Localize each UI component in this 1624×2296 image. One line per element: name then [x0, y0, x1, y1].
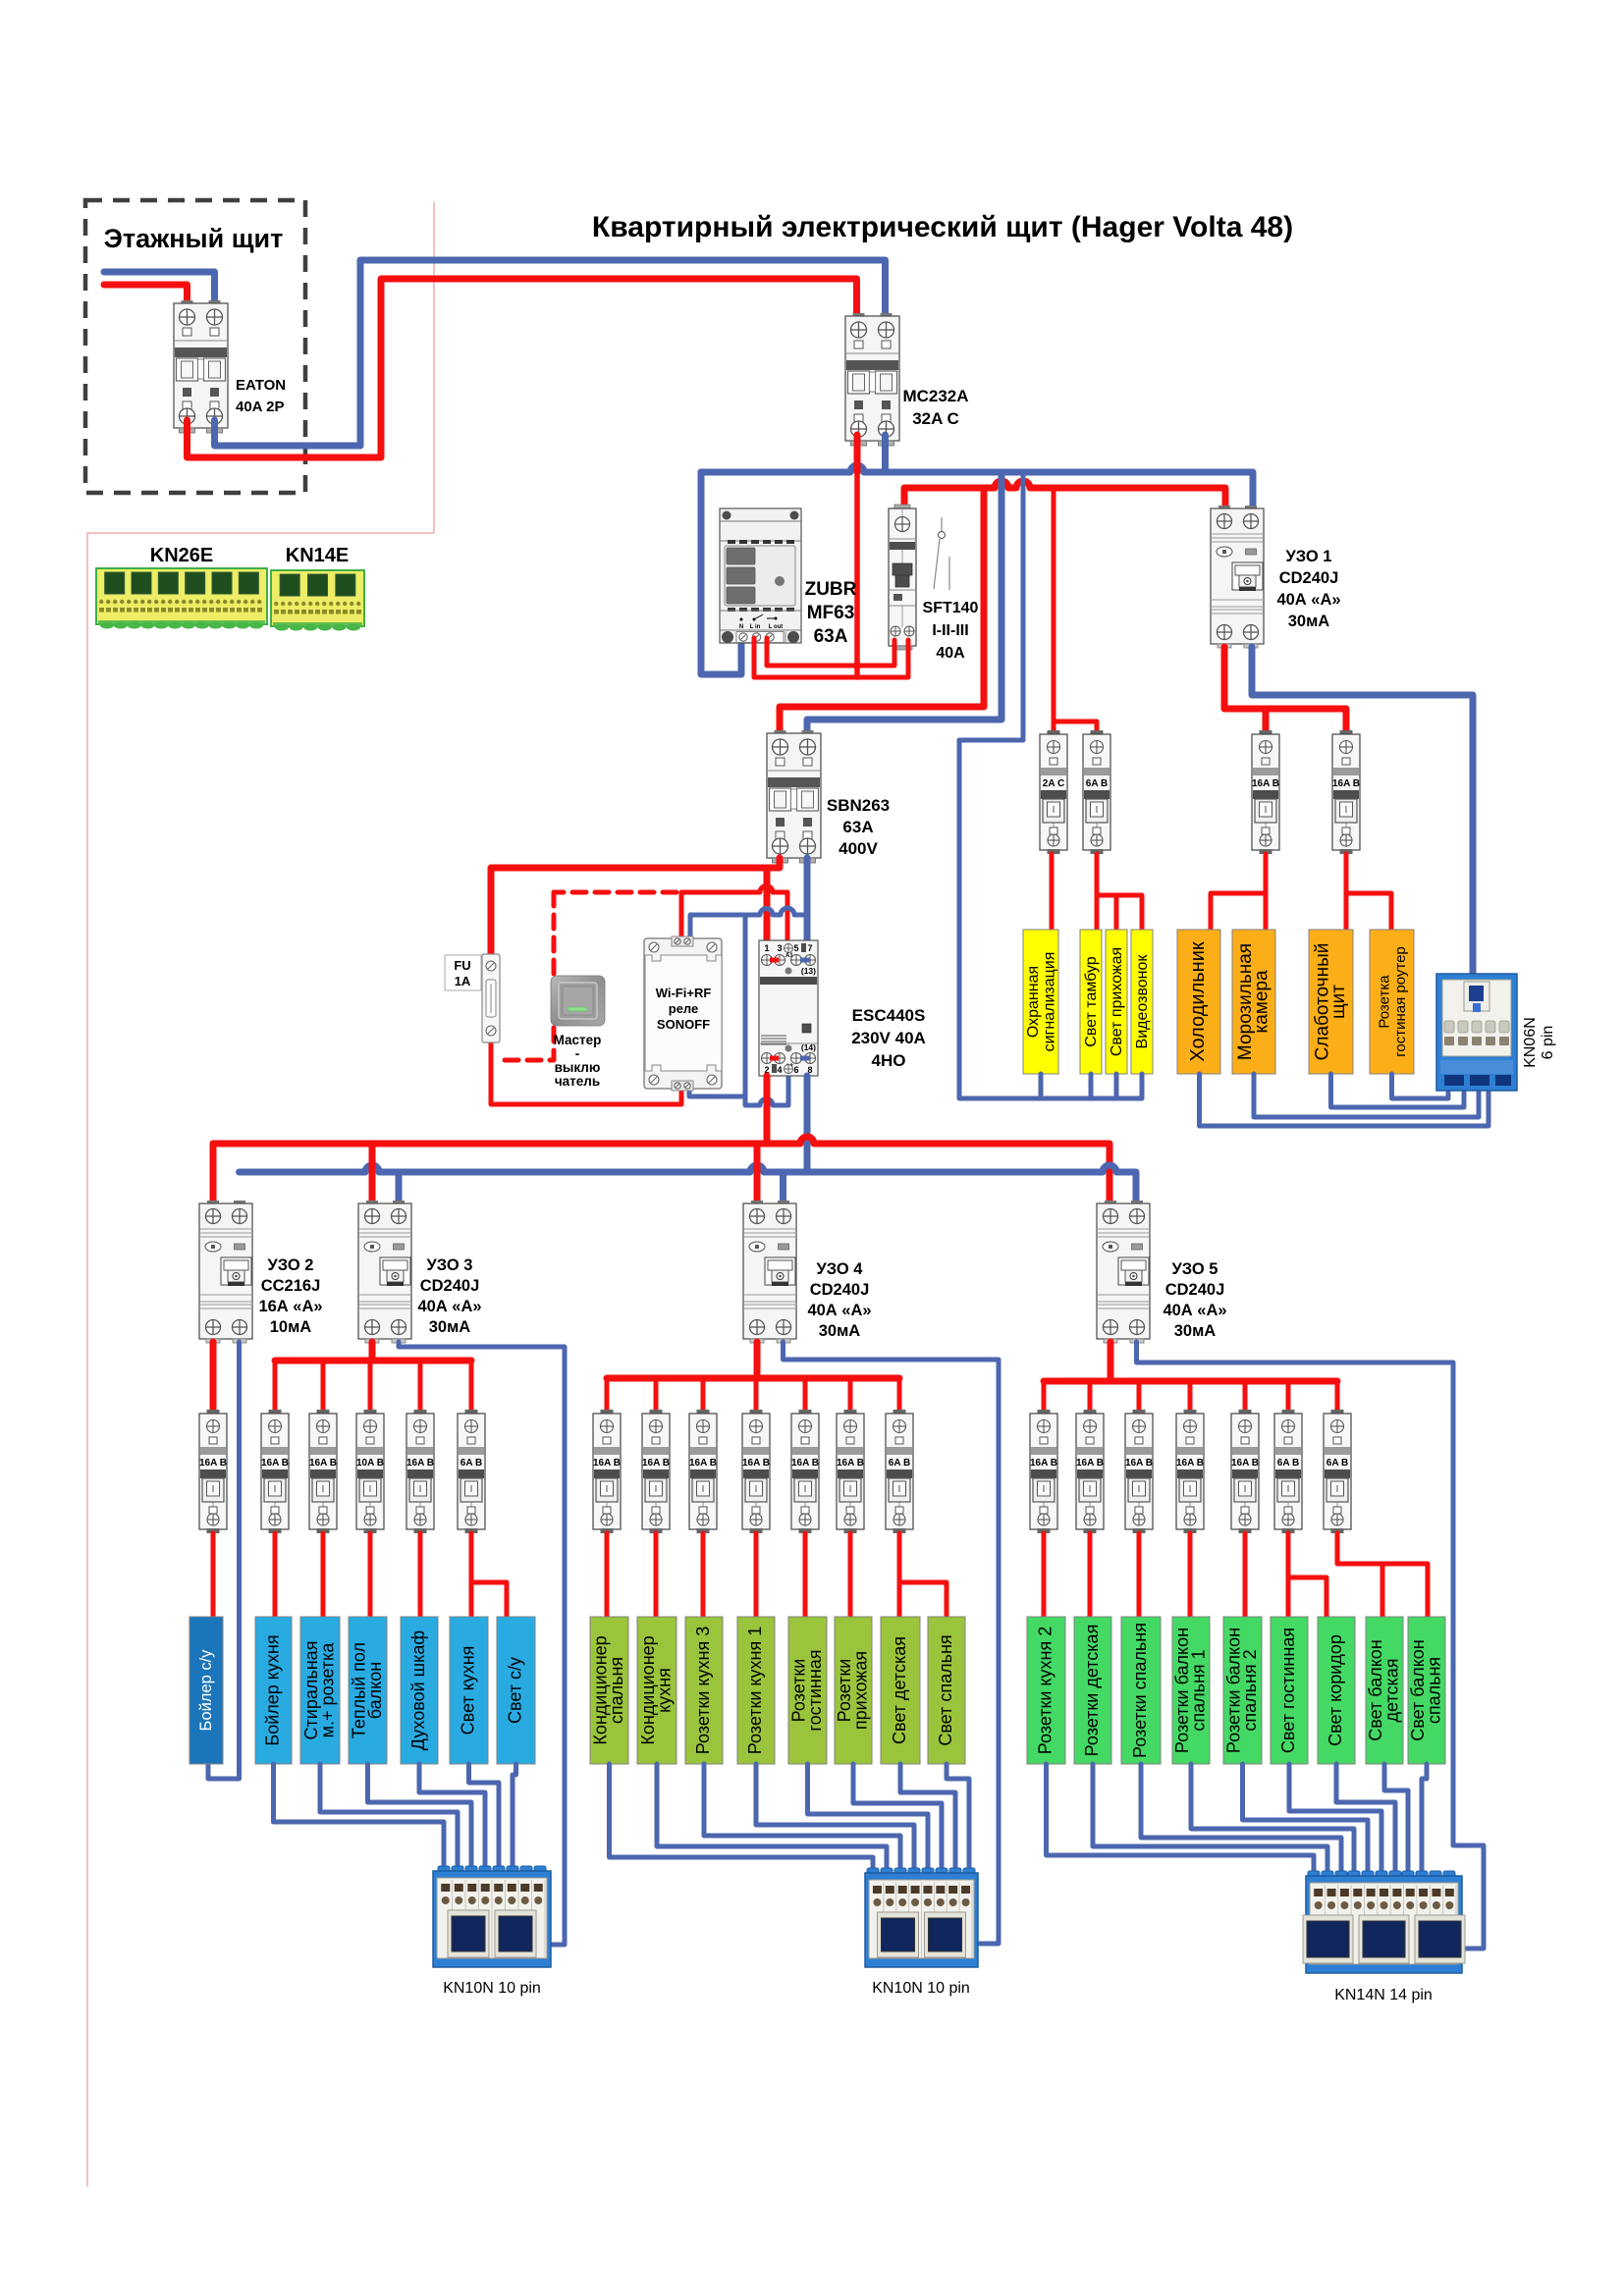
wire load group3 1 [1042, 1533, 1047, 1617]
svg-text:Духовой шкаф: Духовой шкаф [408, 1630, 428, 1751]
wire N group3 bar 2 [1093, 1764, 1327, 1871]
load bar sockets kitchen3 [685, 1617, 723, 1764]
label SFT140 [923, 600, 979, 662]
wire N group3 bar 5 [1243, 1764, 1369, 1871]
breaker group3 16A B [1231, 1410, 1259, 1533]
wire drop group2 breaker 7 [897, 1378, 902, 1410]
svg-text:Розетки кухня 2: Розетки кухня 2 [1036, 1627, 1056, 1754]
wire N group3 bar 1 [1047, 1764, 1315, 1871]
svg-text:гостиная роутер: гостиная роутер [1392, 946, 1409, 1057]
wire N drop UZO3 [396, 1172, 403, 1201]
breaker group2 16A B [689, 1410, 717, 1533]
svg-text:16A B: 16A B [1076, 1458, 1104, 1468]
RCD UZO1 CD240J [1211, 506, 1264, 648]
breaker 16A boiler wc [199, 1410, 227, 1533]
label master switch [554, 1033, 602, 1089]
switch SFT140 [889, 505, 916, 650]
breaker group2 16A B [742, 1410, 770, 1533]
load bar router socket [1370, 930, 1414, 1074]
wire N UZO5 to KN14N [1137, 1342, 1485, 1949]
load bar svet kuhnya [450, 1617, 488, 1764]
svg-text:1: 1 [764, 943, 769, 953]
switch SBN263 63A [767, 730, 821, 863]
wire L drop UZO3 [369, 1144, 376, 1201]
wire L UZO4 down [754, 1342, 761, 1378]
wire branch svet wc [471, 1582, 507, 1617]
wire N bus horizontal [701, 465, 1253, 510]
label MC232A [902, 387, 968, 428]
wire load group2 1 [605, 1533, 610, 1617]
wire drop group2 breaker 2 [654, 1378, 659, 1410]
label UZO3 [417, 1256, 481, 1336]
svg-text:10A B: 10A B [356, 1458, 384, 1468]
wire sonoff N top [690, 908, 807, 940]
svg-text:30мА: 30мА [1288, 613, 1330, 630]
wire drop group3 breaker 7 [1335, 1381, 1340, 1410]
svg-text:L in: L in [750, 624, 761, 630]
svg-text:16A B: 16A B [791, 1458, 819, 1468]
wire N group1 bar 4 [419, 1764, 485, 1866]
svg-text:щит: щит [1328, 985, 1349, 1019]
wire N group2 bar 3 [704, 1764, 900, 1868]
wire load group2 6 [848, 1533, 853, 1617]
svg-text:3: 3 [777, 943, 782, 953]
wire L EATON to MC232A [188, 279, 857, 457]
wire N branch down [745, 915, 788, 1105]
svg-text:30мА: 30мА [429, 1318, 471, 1336]
label UZO5 [1163, 1260, 1226, 1340]
wire N riser tambur [1089, 1074, 1094, 1098]
wire load group1 2 [321, 1533, 326, 1617]
wire drop group3 breaker 5 [1243, 1381, 1248, 1410]
wire N bus upper [882, 435, 889, 472]
wire drop group1 breaker 3 [368, 1361, 373, 1410]
svg-text:выклю: выклю [555, 1060, 601, 1075]
wire L UZO1 out [1224, 647, 1346, 730]
wire L drop UZO4 [754, 1144, 761, 1201]
svg-text:гостинная: гостинная [805, 1649, 825, 1731]
breaker group2 16A B [642, 1410, 670, 1533]
floor panel box [85, 200, 305, 493]
wire N supply in [104, 272, 215, 310]
svg-text:сигнализация: сигнализация [1041, 952, 1057, 1052]
svg-text:Мастер: Мастер [554, 1033, 602, 1047]
RCD UZO5 CD240J [1097, 1201, 1150, 1343]
label UZO2 [258, 1256, 322, 1336]
load bar warm floor [349, 1617, 387, 1764]
wire fridge loads [1211, 854, 1266, 930]
breaker group1 10A B [356, 1410, 384, 1533]
fuse holder FU 1A [482, 954, 500, 1042]
load bar boiler kitchen [255, 1617, 292, 1764]
RCD UZO4 CD240J [743, 1201, 796, 1343]
wire L branch to contactor pin1 [764, 868, 771, 940]
svg-text:прихожая: прихожая [850, 1651, 870, 1730]
wire load group3 3 [1137, 1533, 1142, 1617]
wire L MC232A down [854, 435, 861, 472]
svg-text:40А «А»: 40А «А» [1163, 1302, 1226, 1319]
svg-text:УЗО 3: УЗО 3 [427, 1256, 473, 1274]
load bar sockets hall [835, 1617, 872, 1764]
terminal block KN26E [96, 568, 267, 629]
svg-text:(14): (14) [801, 1042, 816, 1052]
wire L group1 rail [275, 1358, 471, 1364]
wire drop group3 breaker 2 [1088, 1381, 1093, 1410]
svg-text:CD240J: CD240J [420, 1277, 480, 1295]
svg-text:5: 5 [793, 943, 798, 953]
wire L contactor to bus [764, 1076, 771, 1144]
svg-text:KN06N: KN06N [1522, 1017, 1539, 1068]
wire drop group1 breaker 4 [418, 1361, 423, 1410]
wire drop group3 breaker 6 [1286, 1381, 1291, 1410]
construction line [87, 202, 434, 2186]
svg-text:6: 6 [793, 1065, 798, 1075]
floor panel label [104, 224, 284, 253]
svg-text:16A B: 16A B [689, 1458, 717, 1468]
wire drop group3 breaker 3 [1137, 1381, 1142, 1410]
svg-text:УЗО 4: УЗО 4 [817, 1260, 864, 1278]
svg-text:KN26E: KN26E [150, 545, 213, 566]
svg-text:40A: 40A [936, 645, 965, 662]
load bar boiler wc [189, 1617, 223, 1764]
svg-text:6A B: 6A B [1277, 1458, 1299, 1468]
breaker group1 16A B [406, 1410, 434, 1533]
wire fuse bottom to sonoff [491, 1041, 681, 1104]
wire L drop UZO2 [210, 1144, 217, 1201]
svg-text:16A B: 16A B [261, 1458, 289, 1468]
wire L branch to 6A breaker [1054, 721, 1097, 730]
wire branch svet spalnya [899, 1582, 947, 1617]
load bar svet koridor [1318, 1617, 1355, 1764]
wire drop group3 breaker 4 [1188, 1381, 1193, 1410]
load bar sockets spalnya [1121, 1617, 1161, 1764]
svg-text:40А «А»: 40А «А» [417, 1298, 481, 1315]
svg-text:Свет спальня: Свет спальня [936, 1634, 955, 1745]
label FU 1A [445, 955, 481, 990]
breaker MC232A 32A C [845, 313, 899, 446]
wire lowcurrent loads [1346, 854, 1391, 930]
svg-text:УЗО 2: УЗО 2 [268, 1256, 314, 1274]
wire N group3 bar 3 [1141, 1764, 1341, 1871]
load bar freezer [1232, 930, 1275, 1074]
svg-text:16A B: 16A B [1176, 1458, 1204, 1468]
label SBN263 [827, 796, 890, 858]
wire N group3 bar 4 [1191, 1764, 1354, 1871]
wire N UZO4 to KN10N [784, 1342, 1000, 1944]
svg-text:Свет тамбур: Свет тамбур [1083, 956, 1100, 1047]
wire N UZO3 to KN10N [399, 1342, 565, 1945]
svg-text:30мА: 30мА [819, 1322, 861, 1340]
svg-text:чатель: чатель [555, 1074, 600, 1089]
svg-text:16A B: 16A B [309, 1458, 337, 1468]
svg-text:16A B: 16A B [1252, 778, 1279, 789]
wire N riser alarm [1039, 1074, 1044, 1098]
terminal block KN14E [271, 570, 364, 631]
wire N group3 bar 8 [1384, 1764, 1408, 1871]
wire L MC232A tail [854, 472, 860, 677]
contactor ESC440S [759, 940, 818, 1076]
breaker 6A B alarm lights [1083, 730, 1110, 854]
svg-text:FU: FU [454, 958, 470, 973]
wire drop group2 breaker 3 [701, 1378, 706, 1410]
wire load group2 3 [701, 1533, 706, 1617]
svg-text:CD240J: CD240J [1165, 1281, 1225, 1299]
breaker group2 16A B [791, 1410, 819, 1533]
wire N svet wc [513, 1764, 516, 1866]
svg-text:7: 7 [807, 943, 812, 953]
svg-text:400V: 400V [839, 839, 878, 858]
label KN10N a [443, 1980, 541, 1997]
wire N UZO1 to KN06N [1252, 647, 1473, 977]
load bar sockets kitchen1 [737, 1617, 775, 1764]
wire ZUBR Lin to SFT140 [754, 638, 908, 677]
breaker 16A lowcurrent [1332, 730, 1360, 854]
svg-text:спальня: спальня [1424, 1657, 1443, 1724]
label ZUBR [805, 579, 857, 647]
breaker group3 6A B [1274, 1410, 1302, 1533]
label UZO1 [1276, 548, 1340, 630]
wire drop svet prihozhaya [1114, 895, 1119, 930]
load bar svet wc [497, 1617, 535, 1764]
wire N group3 bar 6 [1289, 1764, 1381, 1871]
svg-text:CD240J: CD240J [1279, 569, 1339, 587]
svg-text:спальня: спальня [607, 1657, 626, 1724]
svg-text:Розетки кухня 1: Розетки кухня 1 [745, 1627, 765, 1754]
label EATON [236, 377, 286, 415]
wire master dashed vertical [496, 892, 554, 1060]
wire L to SBN263 [780, 488, 984, 730]
wire load group3 4 [1188, 1533, 1193, 1617]
wire sonoff L to A1 [681, 886, 787, 940]
svg-text:KN10N 10 pin: KN10N 10 pin [872, 1980, 970, 1997]
wire master dashed horizontal [554, 890, 677, 895]
RCD UZO3 CD240J [358, 1201, 411, 1343]
svg-text:2A C: 2A C [1043, 778, 1064, 789]
svg-text:16A B: 16A B [742, 1458, 770, 1468]
wire N group3 bar 7 [1336, 1764, 1395, 1871]
breaker group3 16A B [1030, 1410, 1057, 1533]
svg-text:L out: L out [769, 624, 784, 630]
master switch icon [551, 976, 605, 1026]
wire N fridge [1200, 1074, 1489, 1126]
svg-text:40A 2P: 40A 2P [236, 399, 284, 415]
svg-text:6A B: 6A B [889, 1458, 910, 1468]
svg-text:6A B: 6A B [460, 1458, 482, 1468]
label ESC440S [851, 1006, 926, 1070]
wire N distribution bus [240, 1165, 1137, 1201]
wire L group3 rail [1044, 1378, 1337, 1385]
wire load group2 4 [754, 1533, 759, 1617]
wire N SBN263 to contactor pin7 [804, 858, 811, 940]
svg-text:EATON: EATON [236, 377, 286, 394]
wire N group1 bar 3 [368, 1764, 472, 1866]
load bar lowcurrent panel [1309, 930, 1353, 1074]
wire N freezer [1254, 1074, 1479, 1117]
breaker group3 16A B [1076, 1410, 1104, 1533]
svg-text:ESC440S: ESC440S [852, 1006, 926, 1025]
svg-text:63A: 63A [842, 818, 873, 836]
svg-text:ZUBR: ZUBR [805, 579, 857, 600]
wire L UZO5 down [1108, 1342, 1114, 1381]
wire drop group1 breaker 2 [321, 1361, 326, 1410]
svg-text:Свет коридор: Свет коридор [1326, 1634, 1345, 1746]
svg-text:16A B: 16A B [1332, 778, 1360, 789]
svg-text:40А «А»: 40А «А» [807, 1302, 871, 1319]
breaker group1 16A B [261, 1410, 289, 1533]
wire sonoff N bottom loop [689, 1090, 745, 1096]
wire L to 2A breaker [1052, 488, 1056, 730]
svg-text:балкон: балкон [365, 1662, 385, 1719]
wire load group3 2 [1088, 1533, 1093, 1617]
wire N group1 bar 5 [469, 1764, 500, 1866]
wire load group1 3 [368, 1533, 373, 1617]
svg-text:Этажный щит: Этажный щит [104, 224, 284, 253]
wire load group2 2 [654, 1533, 659, 1617]
switch symbol SFT140 [934, 517, 949, 590]
label KN06N [1522, 1017, 1556, 1068]
wire load svet gostinnaya [1286, 1533, 1291, 1617]
wire branch svet koridor [1288, 1577, 1326, 1617]
voltage relay ZUBR MF63 [720, 508, 801, 643]
breaker group1 6A B [458, 1410, 485, 1533]
wire drop svet balkon detskaya [1380, 1564, 1385, 1617]
wire drop group3 breaker 1 [1042, 1381, 1047, 1410]
wire drop group2 breaker 4 [754, 1378, 759, 1410]
wire load group2 5 [803, 1533, 808, 1617]
svg-text:Розетки спальня: Розетки спальня [1130, 1623, 1150, 1758]
load bar fridge [1177, 930, 1220, 1074]
wire N group2 bar 7 [900, 1764, 955, 1868]
terminal block KN10N a [433, 1866, 551, 1967]
load bar cond bedroom [590, 1617, 628, 1764]
wire drop group1 breaker 5 [469, 1361, 474, 1410]
load bar videozvonok [1131, 930, 1153, 1074]
svg-text:СС216J: СС216J [261, 1277, 321, 1295]
svg-text:камера: камера [1251, 970, 1272, 1033]
svg-text:Охранная: Охранная [1025, 966, 1042, 1038]
svg-text:6A B: 6A B [1086, 778, 1108, 789]
svg-text:Розетки кухня 3: Розетки кухня 3 [693, 1627, 713, 1754]
svg-text:Квартирный электрический щит (: Квартирный электрический щит (Hager Volt… [592, 211, 1293, 243]
wire drop group2 breaker 1 [605, 1378, 610, 1410]
wire L bus horizontal [904, 481, 1225, 510]
wire N yellow loads bus [959, 472, 1142, 1098]
wire N group1 bar 1 [274, 1764, 445, 1866]
wire N group2 bar 8 [947, 1764, 969, 1868]
svg-text:16A B: 16A B [199, 1458, 227, 1468]
wire N to SBN263 [807, 472, 1001, 730]
breaker 16A fridge [1252, 730, 1279, 854]
svg-text:16A B: 16A B [1231, 1458, 1259, 1468]
label KN14N [1334, 1987, 1433, 2003]
wire N drop UZO4 [780, 1172, 786, 1201]
load bar alarm [1023, 930, 1058, 1074]
label KN10N b [872, 1980, 970, 1997]
svg-text:Видеозвонок: Видеозвонок [1134, 954, 1151, 1049]
wire L SBN263 to fuse and contactor [491, 858, 780, 956]
svg-text:1A: 1A [455, 974, 471, 988]
svg-text:УЗО 5: УЗО 5 [1172, 1260, 1218, 1278]
svg-text:Свет с/у: Свет с/у [506, 1657, 525, 1724]
wire to light loads [1097, 854, 1142, 930]
wire load svet detskaya [897, 1533, 902, 1617]
load bar washer [300, 1617, 340, 1764]
svg-text:Свет прихожая: Свет прихожая [1109, 947, 1125, 1056]
svg-text:SFT140: SFT140 [923, 600, 979, 616]
wire N contactor to bus [804, 1076, 811, 1172]
terminal block KN10N b [865, 1868, 978, 1967]
wire N UZO2 return [208, 1342, 240, 1779]
wire N group2 bar 5 [808, 1764, 929, 1868]
relay SONOFF [644, 936, 722, 1091]
svg-text:40А «А»: 40А «А» [1276, 591, 1340, 609]
wire drop group2 breaker 5 [803, 1378, 808, 1410]
svg-text:(13): (13) [801, 966, 816, 976]
svg-text:6 pin: 6 pin [1540, 1026, 1556, 1060]
wire N group2 bar 2 [657, 1764, 887, 1868]
svg-text:кухня: кухня [654, 1668, 674, 1713]
label KN14E [286, 545, 349, 566]
svg-text:16A B: 16A B [1125, 1458, 1153, 1468]
svg-text:16A B: 16A B [593, 1458, 621, 1468]
svg-text:KN14E: KN14E [286, 545, 349, 566]
wire load group1 4 [418, 1533, 423, 1617]
junction L node [853, 662, 861, 669]
wire N group2 bar 6 [853, 1764, 942, 1868]
wire L UZO2 to boiler breaker [210, 1342, 217, 1410]
breaker group2 6A B [886, 1410, 913, 1533]
wire svet balkon pair [1337, 1533, 1428, 1617]
svg-text:реле: реле [669, 1001, 699, 1016]
svg-text:MF63: MF63 [807, 603, 855, 623]
load bar sockets balkon2 [1223, 1617, 1262, 1764]
svg-text:6A B: 6A B [1326, 1458, 1348, 1468]
wire L drop fridge breaker [1263, 709, 1270, 730]
load bar svet gostinnaya [1271, 1617, 1308, 1764]
svg-text:230V 40A: 230V 40A [851, 1029, 926, 1047]
svg-text:I-II-III: I-II-III [932, 622, 968, 639]
breaker group2 16A B [837, 1410, 864, 1533]
svg-text:4: 4 [777, 1065, 782, 1075]
svg-text:32A C: 32A C [912, 409, 959, 428]
wire load group1 1 [273, 1533, 278, 1617]
svg-text:Холодильник: Холодильник [1187, 941, 1209, 1062]
wire L UZO3 down [369, 1342, 376, 1361]
wire freezer drop [1264, 893, 1269, 930]
wire N lowcurrent [1331, 1074, 1465, 1107]
svg-text:Розетка: Розетка [1376, 975, 1392, 1029]
load bar cond kitchen [637, 1617, 677, 1764]
svg-text:16A B: 16A B [837, 1458, 864, 1468]
svg-text:4НО: 4НО [872, 1051, 906, 1070]
wire N group1 bar 2 [320, 1764, 458, 1866]
wire boiler wc load [211, 1533, 216, 1617]
load bar svet detskaya [881, 1617, 920, 1764]
breaker group2 16A B [593, 1410, 621, 1533]
load bar svet balkon detskaya [1366, 1617, 1403, 1764]
breaker 2A C [1040, 730, 1067, 854]
title [592, 211, 1293, 243]
terminal block KN06N [1436, 974, 1517, 1091]
wire N group2 bar 1 [610, 1764, 874, 1868]
load bar svet prihozhaya [1106, 930, 1127, 1074]
svg-text:спальня 2: спальня 2 [1240, 1649, 1260, 1731]
svg-text:спальня 1: спальня 1 [1188, 1649, 1208, 1731]
svg-text:63A: 63A [814, 626, 848, 647]
svg-text:-: - [575, 1046, 580, 1061]
load bar svet spalnya [928, 1617, 965, 1764]
wire drop svet tambur [1095, 895, 1100, 930]
